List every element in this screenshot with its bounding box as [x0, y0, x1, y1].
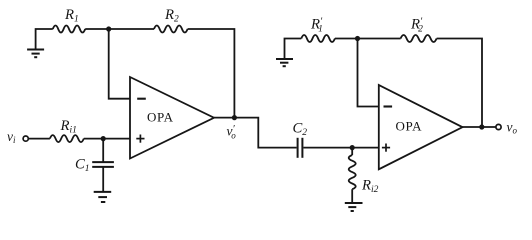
ground (below C1)	[94, 192, 112, 202]
wire: R2' to feedback corner, down to output node E	[437, 39, 482, 128]
wire: C1 bottom plate to ground	[102, 167, 104, 192]
wire: node F down to Ri2	[351, 148, 353, 155]
op-amp U2 minus sign	[384, 105, 393, 107]
svg-text:OPA: OPA	[396, 119, 423, 134]
wire: node A down and right to inverting input of U1	[109, 29, 130, 99]
resistor Ri1	[50, 135, 84, 142]
resistor Ri2	[349, 155, 356, 189]
wire: R1' to node D	[335, 38, 358, 40]
op-amp U1 triangle	[130, 77, 214, 159]
wire: stage2 top rail left segment (ground to R1')	[285, 39, 302, 60]
wire: node D down and right to inverting input of U2	[358, 39, 379, 107]
wire: U1 output to node C	[214, 117, 234, 119]
wire: R1 to node A	[85, 28, 109, 30]
terminal vo (output circle)	[496, 124, 501, 129]
resistor R2'	[401, 35, 437, 42]
capacitor C1	[92, 162, 114, 167]
wire: node C jog down to coupling line	[234, 118, 296, 148]
wire: Ri1 to node B and on to non-inverting input of U1	[84, 138, 130, 140]
node A (junction of R1, R2, inverting branch)	[106, 26, 111, 31]
wire: node B down to C1 top plate	[102, 139, 104, 163]
ground (top, stage 2)	[276, 59, 293, 66]
wire: C2 to node F and to non-inverting input of U2	[303, 147, 378, 149]
terminal vi (input circle)	[23, 136, 28, 141]
op-amp U1 plus sign	[136, 135, 144, 143]
resistor R2	[154, 26, 188, 33]
wire: vi terminal to Ri1	[28, 138, 50, 140]
ground (top-left, stage 1)	[27, 50, 44, 58]
ground (below Ri2)	[345, 203, 363, 211]
svg-text:R′1: R′1	[310, 17, 323, 35]
node E (output junction with feedback)	[479, 124, 484, 129]
node F (junction with Ri2)	[350, 145, 355, 150]
capacitor C2	[298, 138, 303, 158]
op-amp U1 minus sign	[137, 98, 146, 100]
wire: R2 to feedback corner, down to output node C	[188, 29, 235, 118]
wire: node D to R2'	[358, 38, 401, 40]
wire: U2 output to node E and output terminal	[463, 126, 496, 128]
wire: node A to R2	[109, 28, 154, 30]
resistor R1'	[301, 35, 335, 42]
wire: stage1 top rail left segment (ground to R1)	[36, 29, 53, 50]
wire: Ri2 to ground	[351, 189, 353, 203]
svg-text:R′2: R′2	[410, 17, 423, 35]
resistor R1	[53, 26, 85, 33]
svg-text:OPA: OPA	[147, 110, 174, 125]
node B (junction with C1)	[101, 136, 106, 141]
node D (junction of R1', R2', inverting branch)	[355, 36, 360, 41]
op-amp U2 plus sign	[382, 144, 390, 152]
node C (v'o, output of stage 1)	[232, 115, 237, 120]
op-amp U2 triangle	[379, 85, 463, 169]
